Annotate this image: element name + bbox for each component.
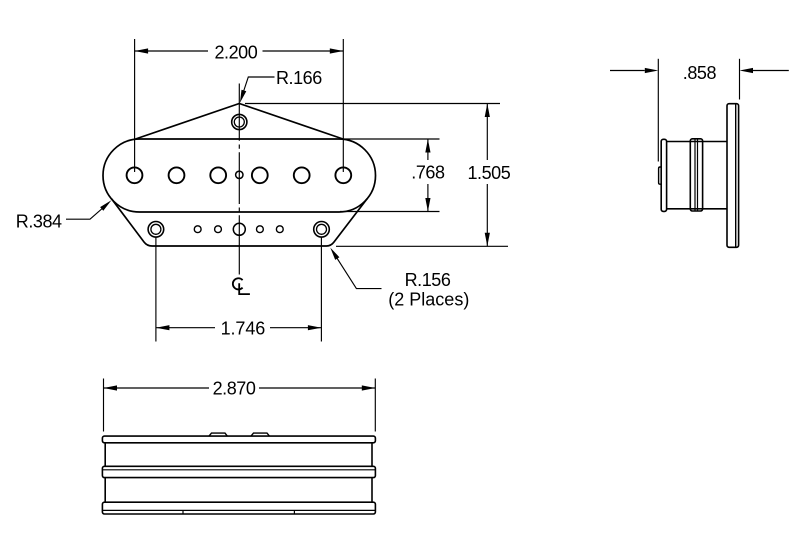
leader R.166 arrowhead <box>240 90 246 103</box>
side view left tab <box>659 167 662 184</box>
dim 2.870 right extension line <box>374 379 376 432</box>
dim 1.746 right arrowhead <box>308 325 322 330</box>
side view baseplate inner line <box>735 104 737 248</box>
dim .768 bottom arrowhead <box>425 198 430 212</box>
dim .858 left arrow line <box>610 70 645 72</box>
flange small hole 2 <box>215 226 222 233</box>
left mounting screw hole outer <box>148 222 164 238</box>
dim 2.870 left arrowhead <box>104 385 118 390</box>
dim .858 left extension line <box>657 59 659 162</box>
left mounting screw hole inner <box>151 224 161 234</box>
svg-text:2.870: 2.870 <box>213 379 256 399</box>
dim .768 line <box>427 139 429 212</box>
leader R.156 <box>336 256 382 289</box>
flange center hole <box>233 223 245 235</box>
dim .768 top arrowhead <box>425 139 430 153</box>
dim 1.746 left extension line <box>155 238 157 342</box>
vertical centerline <box>238 84 240 275</box>
side view bobbin left flange <box>661 139 666 211</box>
dim 1.505 top extension line <box>245 103 500 105</box>
front view middle flange inner line <box>102 469 375 471</box>
dim .768 bottom extension line <box>340 211 440 213</box>
flange small hole 3 <box>257 226 264 233</box>
side view body top edge <box>667 141 727 143</box>
svg-text:R.384: R.384 <box>16 212 62 232</box>
flange small hole 1 <box>194 226 201 233</box>
svg-text:R.156: R.156 <box>405 270 451 290</box>
pole piece 4 <box>252 167 268 183</box>
dim .858 right arrowhead <box>740 68 754 73</box>
pole piece 2 <box>169 167 185 183</box>
dim 1.505 line <box>486 104 488 247</box>
dim 2.870 left extension line <box>103 379 105 432</box>
side view magnet band inner line 2 <box>697 139 699 211</box>
dim 1.746 right extension line <box>320 238 322 342</box>
svg-text:R.166: R.166 <box>276 68 322 88</box>
dim .858 right arrow line <box>753 70 789 72</box>
pole piece 5 <box>294 167 310 183</box>
front view baseplate inner line <box>102 509 375 511</box>
front view coil left edge lower <box>104 478 106 503</box>
side view magnet band <box>690 139 702 211</box>
svg-text:1.505: 1.505 <box>468 163 511 183</box>
center wire hole <box>236 171 243 178</box>
svg-text:1.746: 1.746 <box>221 319 266 339</box>
side view baseplate <box>727 104 739 248</box>
centerline CL symbol <box>233 278 250 294</box>
dim 2.870 right arrowhead <box>362 385 376 390</box>
front view coil left edge upper <box>104 443 106 467</box>
dim 2.200 left extension line <box>134 39 136 172</box>
front view top tab 2 <box>251 433 269 436</box>
flange small hole 4 <box>276 226 283 233</box>
leader R.384 <box>66 207 105 220</box>
svg-text:(2 Places): (2 Places) <box>388 290 469 310</box>
pickup body (stadium outline) <box>103 139 376 212</box>
dim .858 left arrowhead <box>645 68 659 73</box>
front view baseplate tick 2 <box>293 510 295 514</box>
pole piece 6 <box>335 167 351 183</box>
ear screw hole inner <box>234 117 244 127</box>
dim 2.200 line <box>135 50 344 52</box>
svg-text:.858: .858 <box>683 63 717 83</box>
dim 1.746 left arrowhead <box>156 325 170 330</box>
leader R.166 <box>242 77 275 97</box>
front view top plate <box>102 436 375 443</box>
bottom flange <box>111 199 367 246</box>
side view magnet band inner line 1 <box>694 139 696 211</box>
front view top tab 1 <box>209 433 227 436</box>
pole piece 3 <box>210 167 226 183</box>
ear screw hole outer <box>232 114 247 129</box>
front view baseplate tick 1 <box>182 510 184 514</box>
front view coil right edge lower <box>371 478 373 503</box>
svg-text:2.200: 2.200 <box>215 43 258 63</box>
front view middle flange plate <box>102 466 375 477</box>
dim 2.200 right extension line <box>342 39 344 172</box>
side view body bottom edge <box>667 208 727 210</box>
dim .858 right extension line <box>739 59 741 100</box>
dim 1.746 line <box>156 327 322 329</box>
leader R.156 arrowhead <box>330 248 339 260</box>
svg-text:.768: .768 <box>411 163 445 183</box>
dim 1.505 bottom arrowhead <box>485 233 490 247</box>
dim 2.200 right arrowhead <box>330 48 344 53</box>
leader R.384 arrowhead <box>100 200 111 211</box>
mounting ear triangle <box>136 104 344 140</box>
dim 1.505 top arrowhead <box>485 104 490 118</box>
front view coil right edge upper <box>371 443 373 467</box>
right mounting screw hole outer <box>314 222 330 238</box>
dim 2.870 line <box>104 387 376 389</box>
right mounting screw hole inner <box>317 224 327 234</box>
pole piece 1 <box>127 167 143 183</box>
dim .768 top extension line <box>344 138 440 140</box>
front view baseplate <box>102 502 375 514</box>
dim 1.505 bottom extension line <box>336 245 508 247</box>
dim 2.200 left arrowhead <box>135 48 149 53</box>
